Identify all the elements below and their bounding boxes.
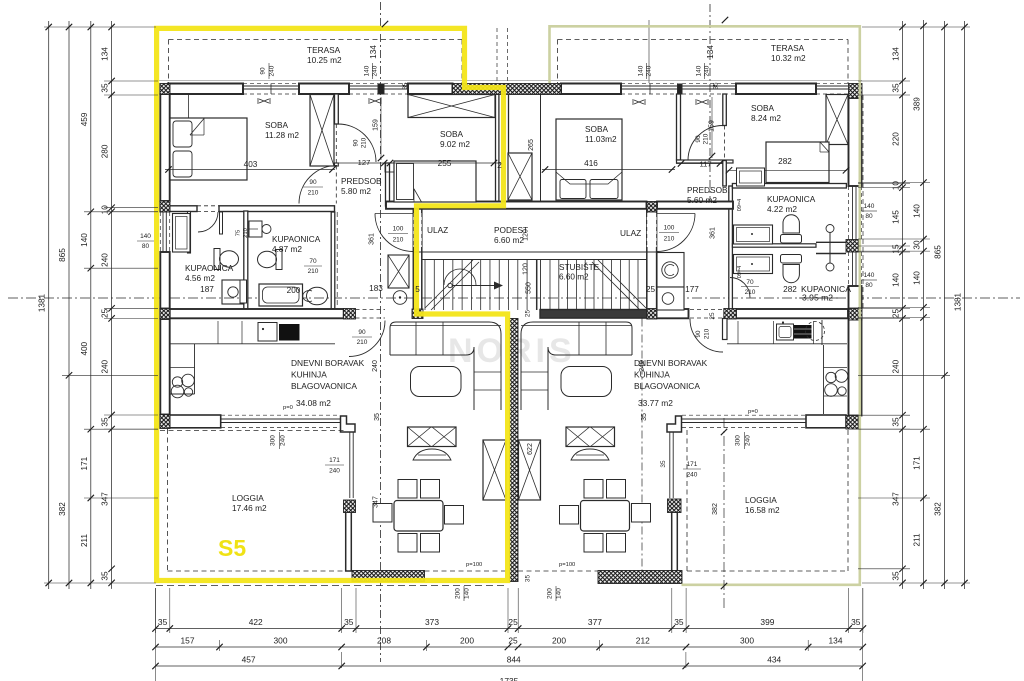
hatch left wall living corner — [160, 309, 170, 320]
loggia glass door left apt — [221, 418, 340, 420]
svg-text:35: 35 — [892, 417, 901, 427]
svg-text:145: 145 — [892, 210, 901, 224]
svg-text:p=100: p=100 — [466, 562, 482, 568]
svg-text:140: 140 — [140, 233, 151, 240]
svg-text:210: 210 — [308, 190, 319, 197]
svg-text:240: 240 — [687, 472, 698, 479]
svg-text:p=100: p=100 — [559, 562, 575, 568]
axis line x=649 top — [648, 20, 650, 83]
svg-text:171: 171 — [913, 456, 922, 470]
door arc living left — [349, 321, 385, 357]
svg-text:140: 140 — [696, 65, 703, 76]
wardrobe SOBA 9.02 — [408, 95, 495, 118]
dimension chain left inner x112 — [111, 21, 113, 589]
svg-text:SOBA: SOBA — [585, 124, 609, 134]
hatch wall x335 living — [344, 309, 356, 320]
svg-text:120: 120 — [523, 229, 530, 241]
sink right core — [657, 287, 684, 310]
svg-text:35: 35 — [374, 413, 381, 421]
svg-text:622: 622 — [527, 443, 534, 455]
wall KUPAONICA4.22 top y186 — [732, 184, 846, 189]
svg-text:210: 210 — [243, 228, 249, 238]
bottom dimension line 3 — [156, 665, 863, 667]
bathtub KUPAONICA 4.87 — [259, 284, 303, 306]
svg-text:09=4: 09=4 — [737, 199, 743, 211]
stair landing arc — [444, 269, 476, 285]
top wall segment C — [408, 84, 453, 95]
svg-text:BLAGOVAONICA: BLAGOVAONICA — [291, 381, 357, 391]
svg-text:SOBA: SOBA — [751, 103, 775, 113]
svg-text:210: 210 — [361, 137, 368, 148]
svg-text:6.60 m2: 6.60 m2 — [559, 273, 589, 282]
hatch loggia parapet left apt — [344, 500, 356, 513]
svg-text:210: 210 — [393, 237, 404, 244]
svg-text:4.87 m2: 4.87 m2 — [272, 244, 302, 254]
svg-text:35: 35 — [101, 571, 110, 581]
loggia corner piece right — [667, 416, 682, 432]
svg-text:200: 200 — [287, 286, 301, 295]
dim line 416 SOBA11.03 — [542, 169, 675, 171]
svg-text:134: 134 — [829, 636, 843, 646]
top wall segment A (left corner to window1) — [168, 84, 243, 95]
svg-text:255: 255 — [438, 159, 452, 168]
dimension chain right outer x944 — [944, 21, 946, 589]
wall SOBA8.24 west lower — [723, 161, 727, 187]
hatch top-right corner — [849, 84, 863, 99]
svg-text:403: 403 — [244, 160, 258, 169]
svg-text:3.95 m2: 3.95 m2 — [802, 293, 833, 303]
svg-text:09=4: 09=4 — [737, 266, 743, 278]
dimension chain left outermost x49 — [48, 21, 50, 589]
svg-text:240: 240 — [280, 435, 287, 446]
svg-text:11.28 m2: 11.28 m2 — [265, 130, 299, 140]
hatch loggia parapet right apt — [668, 499, 682, 513]
soba 11.03 niche line — [540, 94, 542, 204]
wall SOBA11.28/PREDSOB upper — [335, 94, 339, 124]
svg-text:422: 422 — [249, 617, 263, 627]
svg-text:240: 240 — [372, 360, 379, 372]
svg-text:ULAZ: ULAZ — [427, 225, 448, 235]
axis line x=642 right living — [641, 319, 643, 572]
party wall bedrooms right line — [508, 94, 510, 206]
svg-text:90: 90 — [260, 67, 267, 75]
bottom dimension line 2 — [156, 646, 863, 648]
svg-text:PREDSOB: PREDSOB — [341, 176, 382, 186]
kitchen extractor dashed circle — [806, 322, 825, 341]
svg-text:300: 300 — [270, 435, 277, 446]
coffee table left apt — [411, 367, 462, 397]
wall PREDSOB-right/SOBA11.03 — [677, 94, 681, 160]
bidet KUPAONICA 4.87 — [307, 287, 328, 305]
wardrobe SOBA 8.24 — [826, 95, 848, 145]
svg-text:35: 35 — [101, 417, 110, 427]
kitchen stove left apt — [279, 324, 300, 341]
svg-text:459: 459 — [80, 112, 89, 126]
svg-text:240: 240 — [745, 435, 752, 446]
svg-text:134: 134 — [706, 45, 715, 59]
svg-text:9.02 m2: 9.02 m2 — [440, 139, 470, 149]
svg-text:90: 90 — [358, 329, 366, 336]
coffee table right apt — [561, 367, 612, 397]
svg-text:844: 844 — [507, 655, 521, 665]
terrace right dashed edge — [518, 570, 598, 572]
kitchen sink left apt — [258, 323, 277, 342]
svg-text:134: 134 — [101, 47, 110, 61]
extension lines right — [862, 26, 970, 28]
svg-text:LOGGIA: LOGGIA — [745, 495, 777, 505]
svg-text:140: 140 — [913, 204, 922, 218]
svg-text:171: 171 — [687, 461, 698, 468]
svg-text:35: 35 — [101, 83, 110, 93]
top wall segment B — [299, 84, 349, 95]
toilet KUPAONICA 4.87 — [276, 250, 282, 270]
hatch stair core right bottom — [647, 309, 657, 320]
washing machine KUPAONICA 4.56 — [222, 280, 244, 304]
top wall segment E — [736, 84, 816, 95]
svg-text:16.58 m2: 16.58 m2 — [745, 505, 780, 515]
door arc KUPAONICA 3.95 — [730, 278, 750, 298]
loggia right dashed boundary — [847, 430, 849, 571]
svg-text:159: 159 — [709, 120, 716, 132]
svg-text:220: 220 — [892, 132, 901, 146]
dim line 159 right — [711, 97, 713, 158]
hatch right wall loggia corner — [846, 416, 859, 430]
svg-text:p=0: p=0 — [748, 409, 758, 415]
svg-text:211: 211 — [913, 533, 922, 546]
svg-text:10: 10 — [101, 205, 110, 215]
svg-text:35: 35 — [892, 571, 901, 581]
svg-text:208: 208 — [377, 636, 391, 646]
svg-text:382: 382 — [712, 503, 719, 515]
svg-text:KUHINJA: KUHINJA — [291, 370, 327, 380]
lounger right apt — [571, 449, 609, 460]
svg-text:6.60 m2: 6.60 m2 — [494, 235, 524, 245]
svg-text:KUPAONICA: KUPAONICA — [767, 194, 816, 204]
axis tick right top — [722, 17, 728, 23]
svg-text:LOGGIA: LOGGIA — [232, 493, 264, 503]
extension lines left — [44, 26, 156, 28]
door arc SOBA 8.24 — [688, 126, 723, 161]
svg-text:140: 140 — [864, 203, 875, 210]
shaft right of party wall — [519, 440, 541, 500]
section center line horizontal y=298 — [8, 297, 1020, 299]
wardrobe SOBA 11.28 — [310, 95, 334, 167]
loggia-living window right apt — [669, 432, 671, 498]
svg-text:183: 183 — [369, 284, 383, 293]
kitchen hob circles right apt — [826, 372, 836, 382]
wall SOBA11.28/bathrooms west part — [170, 206, 197, 212]
right wall window upper (140/80) — [852, 186, 854, 240]
svg-text:90: 90 — [695, 135, 702, 143]
loggia wall right apt solid part — [806, 415, 846, 428]
kitchen stove right apt — [794, 325, 812, 339]
washbasin KUPAONICA 3.95 — [734, 255, 773, 274]
stair direction arrow — [448, 283, 452, 287]
axis tick left top — [382, 21, 388, 27]
door arc KUPAONICA 4.56 — [198, 212, 218, 232]
svg-text:25: 25 — [508, 617, 518, 627]
svg-text:1381: 1381 — [38, 293, 47, 312]
loggia-living window left apt — [349, 432, 351, 498]
svg-text:4.56 m2: 4.56 m2 — [185, 273, 215, 283]
svg-text:1735: 1735 — [500, 676, 519, 681]
window sill symbol c — [633, 99, 645, 105]
svg-text:80: 80 — [865, 282, 873, 289]
svg-text:550: 550 — [526, 282, 533, 294]
svg-text:25: 25 — [709, 312, 716, 320]
svg-text:200: 200 — [460, 636, 474, 646]
svg-text:S5: S5 — [218, 535, 246, 561]
dining table right apt — [581, 501, 630, 532]
svg-text:35: 35 — [674, 617, 684, 627]
toilet KUPAONICA 4.56 — [214, 249, 220, 270]
svg-text:90: 90 — [309, 179, 317, 186]
window sill symbol d — [696, 99, 708, 105]
svg-text:140: 140 — [913, 271, 922, 285]
window sill symbol a — [258, 98, 270, 104]
svg-text:865: 865 — [58, 248, 67, 262]
svg-text:75: 75 — [236, 230, 242, 236]
wall stub SOBA11.28 y163 — [335, 163, 339, 166]
partition KUPAONICA 4.56 — [188, 212, 191, 254]
svg-text:282: 282 — [778, 157, 792, 166]
loggia wall left apt solid part — [170, 415, 221, 428]
svg-text:127: 127 — [358, 158, 371, 167]
hatch right wall living corner — [849, 309, 863, 321]
svg-text:KUPAONICA: KUPAONICA — [185, 263, 234, 273]
kitchen hob circles left apt — [172, 377, 182, 387]
svg-text:10.32 m2: 10.32 m2 — [771, 53, 806, 63]
dim line 159 left — [380, 97, 382, 160]
svg-text:10: 10 — [892, 181, 901, 191]
svg-text:157: 157 — [181, 636, 195, 646]
svg-text:80: 80 — [865, 213, 873, 220]
svg-text:35: 35 — [158, 617, 168, 627]
svg-text:265: 265 — [528, 139, 535, 151]
hatch corridor right — [647, 202, 657, 213]
svg-text:35: 35 — [641, 413, 648, 421]
bottom dimension line 1 — [156, 628, 863, 630]
dim line 127 PREDSOB — [334, 162, 502, 164]
terrace table right apt — [566, 427, 615, 447]
window W5 near right corner — [816, 85, 848, 87]
party wall bedrooms left line — [496, 94, 499, 206]
svg-text:347: 347 — [892, 492, 901, 506]
svg-text:140: 140 — [556, 588, 563, 599]
svg-text:389: 389 — [913, 97, 922, 111]
bed SOBA 9.02 — [394, 161, 476, 202]
shaft left of party wall — [483, 440, 506, 500]
dimension chain right inner x902 — [902, 21, 904, 589]
svg-text:1381: 1381 — [954, 292, 963, 311]
yellow S5 boundary — [157, 28, 508, 580]
terrace S6 dashed boundary — [558, 39, 849, 41]
svg-text:2: 2 — [497, 161, 502, 170]
svg-text:361: 361 — [710, 227, 717, 239]
svg-text:240: 240 — [639, 360, 646, 372]
bed SOBA 8.24 — [766, 142, 829, 183]
sofa right apt — [521, 322, 632, 410]
loggia left dashed boundary — [167, 429, 169, 571]
door arc ULAZ right — [657, 214, 695, 252]
svg-text:171: 171 — [80, 456, 89, 470]
dim line 282 SOBA 8.24 — [728, 169, 848, 171]
terrace table left apt — [408, 427, 457, 447]
svg-text:35: 35 — [713, 82, 720, 90]
hatch living door right — [724, 309, 736, 320]
svg-text:210: 210 — [308, 268, 319, 275]
kitchen counter right apt — [727, 343, 847, 345]
svg-text:TERASA: TERASA — [307, 45, 341, 55]
svg-text:240: 240 — [329, 468, 340, 475]
wall between left bathrooms x245 — [244, 211, 248, 310]
svg-text:4.22 m2: 4.22 m2 — [767, 204, 797, 214]
svg-text:KUPAONICA: KUPAONICA — [272, 234, 321, 244]
svg-text:DNEVNI BORAVAK: DNEVNI BORAVAK — [291, 358, 365, 368]
window W1 (90/240) top wall — [243, 85, 299, 87]
sofa left apt — [390, 322, 501, 410]
dimension chain right mid x923 — [923, 20, 925, 589]
svg-text:25: 25 — [508, 636, 518, 646]
svg-text:399: 399 — [760, 617, 774, 627]
left wall segment upper (SOBA 11.28) — [160, 94, 169, 201]
loggia right internal dim line — [723, 418, 725, 608]
svg-text:347: 347 — [101, 492, 110, 506]
svg-text:159: 159 — [373, 119, 380, 131]
svg-text:140: 140 — [364, 65, 371, 76]
svg-text:100: 100 — [664, 225, 675, 232]
loggia glass door right apt — [682, 418, 806, 420]
toilet KUPAONICA 3.95 — [781, 255, 802, 264]
stair core left wall door gap dashed — [413, 213, 422, 247]
svg-text:377: 377 — [588, 617, 602, 627]
hatch terrace parapet right — [598, 571, 682, 584]
svg-text:PREDSOB.: PREDSOB. — [687, 185, 730, 195]
svg-text:211: 211 — [80, 534, 89, 547]
top wall segment D right of party hatch — [561, 84, 621, 95]
dim line 403 SOBA 11.28 — [165, 169, 335, 171]
svg-text:382: 382 — [58, 502, 67, 516]
hatch left wall loggia corner — [160, 415, 170, 429]
svg-text:35: 35 — [851, 617, 861, 627]
svg-text:140: 140 — [80, 233, 89, 247]
wall PREDSOB/SOBA9.02 — [386, 163, 390, 206]
svg-text:17.46 m2: 17.46 m2 — [232, 503, 267, 513]
terrace S5 dashed boundary — [169, 39, 463, 41]
svg-text:SOBA: SOBA — [265, 120, 289, 130]
svg-text:TERASA: TERASA — [771, 43, 805, 53]
svg-text:200: 200 — [455, 588, 462, 599]
svg-text:361: 361 — [369, 233, 376, 245]
hatch left wall mid — [160, 201, 170, 212]
loggia side wall right apt — [672, 512, 678, 571]
svg-text:ULAZ: ULAZ — [620, 228, 641, 238]
shower partition KUPAONICA 4.56 — [240, 280, 247, 303]
svg-text:140: 140 — [464, 588, 471, 599]
axis line party-wall top left — [496, 28, 498, 83]
staircase treads — [422, 259, 647, 261]
toilet KUPAONICA 4.22 — [783, 215, 799, 233]
dimension chain right outermost x965 — [964, 21, 966, 589]
svg-text:282: 282 — [783, 285, 797, 294]
svg-text:35: 35 — [660, 460, 667, 468]
svg-text:8.24 m2: 8.24 m2 — [751, 113, 781, 123]
svg-text:140: 140 — [864, 272, 875, 279]
right wall segment lower (living) — [849, 320, 862, 416]
svg-text:STUBIŠTE: STUBIŠTE — [559, 262, 600, 272]
wall stub below right door — [723, 319, 728, 340]
svg-text:210: 210 — [357, 339, 368, 346]
dim line 117 PREDSOB right — [676, 163, 723, 165]
svg-text:140: 140 — [892, 273, 901, 287]
axis line vertical x=710 — [709, 4, 711, 210]
svg-text:400: 400 — [80, 341, 89, 355]
svg-text:347: 347 — [373, 496, 380, 508]
svg-text:187: 187 — [200, 285, 214, 294]
window jamb W3/W4 — [678, 84, 683, 94]
corridor top wall — [386, 202, 647, 209]
svg-text:140: 140 — [638, 65, 645, 76]
svg-text:134: 134 — [369, 45, 378, 59]
svg-text:300: 300 — [274, 636, 288, 646]
wall KUPAONICA4.87 east — [331, 212, 335, 309]
corridor top wall right part — [657, 202, 733, 209]
svg-text:134: 134 — [892, 47, 901, 61]
svg-text:25: 25 — [525, 310, 532, 318]
svg-text:25: 25 — [101, 308, 110, 318]
living top wall right apt east — [736, 309, 848, 318]
living top wall right apt west — [657, 309, 689, 318]
svg-text:240: 240 — [101, 359, 110, 373]
svg-text:35: 35 — [892, 83, 901, 93]
right wall segment mid — [849, 286, 862, 309]
window W2 center jamb at axis — [378, 84, 384, 94]
svg-text:210: 210 — [703, 133, 710, 144]
svg-text:33.77 m2: 33.77 m2 — [638, 398, 673, 408]
svg-text:210: 210 — [745, 289, 756, 296]
green S6 boundary — [550, 26, 860, 585]
washbasin KUPAONICA 4.87 — [249, 221, 262, 237]
svg-text:5.80 m2: 5.80 m2 — [341, 186, 371, 196]
right wall segment upper — [849, 98, 862, 186]
axis line vertical x=380 — [380, 2, 382, 662]
living top wall left apt — [170, 309, 344, 318]
svg-text:117: 117 — [699, 160, 711, 169]
lounger left apt — [413, 449, 451, 460]
window sill symbol b — [369, 98, 381, 104]
door leaf KUPAONICA 4.56 — [220, 212, 223, 234]
stair core right wall door gap dashed — [647, 213, 657, 247]
dining table left apt — [394, 501, 443, 532]
svg-text:SOBA: SOBA — [440, 129, 464, 139]
axis line x=863 right — [862, 95, 864, 310]
stair/podest divider line — [413, 251, 657, 253]
svg-text:200: 200 — [552, 636, 566, 646]
svg-text:35: 35 — [402, 82, 409, 90]
kitchen counter left apt — [170, 343, 335, 345]
svg-text:5.60 m2: 5.60 m2 — [687, 195, 717, 205]
svg-text:p=0: p=0 — [283, 405, 293, 411]
svg-text:5: 5 — [415, 285, 420, 294]
dining chairs right apt — [584, 480, 603, 499]
svg-text:120: 120 — [523, 263, 530, 275]
cabinet ULAZ niche left — [388, 255, 409, 288]
hatch right wall between windows — [846, 240, 859, 253]
bed SOBA 11.28 — [170, 118, 247, 180]
boiler circle ULAZ left — [393, 291, 407, 305]
svg-text:11.03m2: 11.03m2 — [585, 134, 617, 144]
bed fold SOBA 11.28 — [190, 119, 204, 136]
